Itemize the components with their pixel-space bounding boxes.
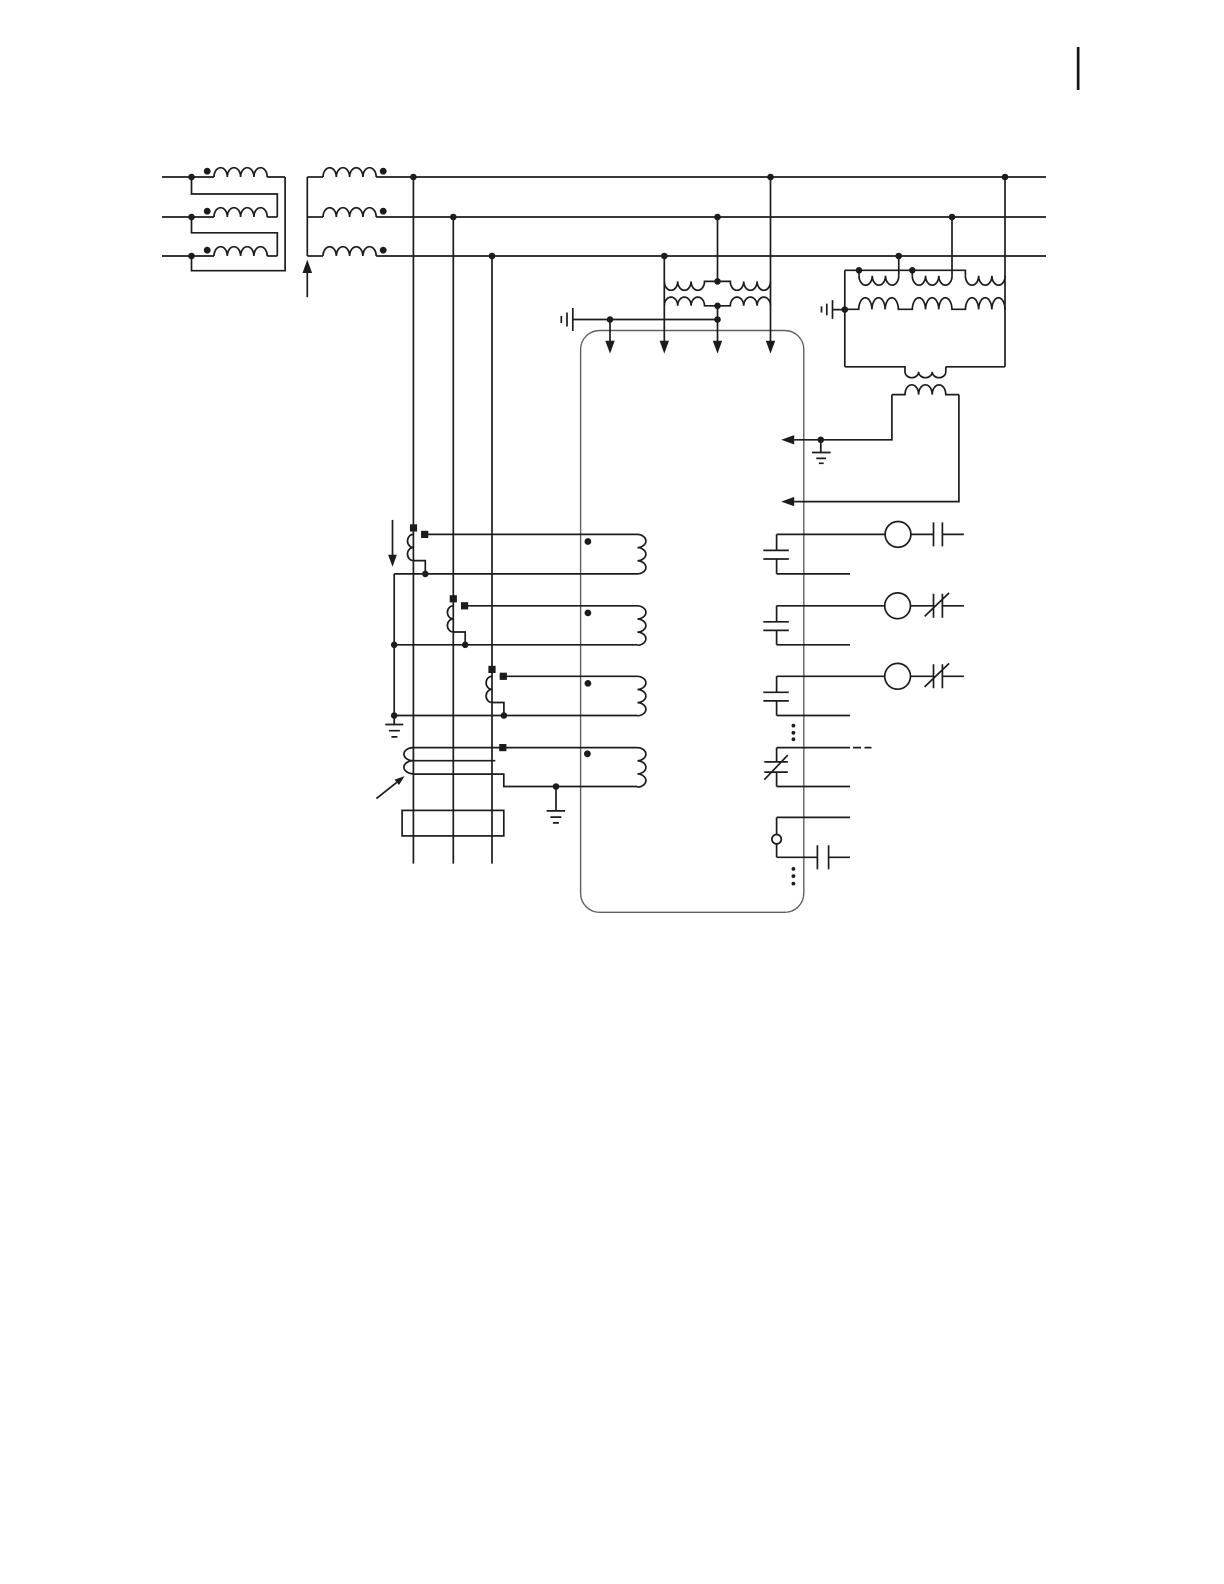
polarity dot T1 primary C (204, 247, 211, 254)
wire F2 winding b lead (911, 270, 913, 275)
contact K2 row 2 with slash (925, 593, 950, 618)
meter circle row 1 (885, 522, 911, 548)
transactor TA1 polarity square primary (410, 524, 417, 531)
transactor TA3 primary winding on phase C drop (486, 676, 504, 715)
junction dot secondary lead 1 (818, 437, 825, 444)
capacitor C1 branch row 1 (763, 534, 850, 574)
ground G2 below TA4 (547, 787, 565, 823)
transformer T1 primary winding phase A (214, 168, 267, 177)
polarity dot T1 secondary C (380, 247, 387, 254)
junction dot phase B tap 2 (714, 214, 721, 221)
wire T1-B winding tail (267, 216, 277, 218)
arrow up at secondary bus (306, 273, 308, 298)
junction dot ground bus at center drop (714, 316, 721, 323)
wire tap vertical phase C (491, 256, 493, 864)
junction dot TA4 ground tap (553, 783, 560, 790)
junction dot TA1 common (422, 571, 429, 578)
wire TA2 secondary top lead (461, 605, 638, 607)
junction dot TA2 common (462, 642, 469, 649)
wire filter F2 phase C lead (898, 256, 900, 276)
junction dot TA3 common (501, 712, 508, 719)
wire F2 bottom loop with output transformer primary (845, 367, 1005, 378)
inductor TA4 secondary inside relay (638, 748, 646, 788)
wire T1-A winding tail (267, 176, 285, 178)
wire ground bus to relay (573, 319, 718, 321)
wire filter F2 phase B lead (951, 217, 953, 276)
wire filter F2 phase A lead and loop right side (1004, 177, 1006, 367)
junction dot F2 bus a (856, 267, 863, 274)
output row 1 line (777, 533, 964, 535)
wire phase B bus (376, 216, 1046, 218)
capacitor C2 branch row 2 (763, 606, 850, 645)
junction dot phase A input (188, 174, 195, 181)
output row 3 line (777, 675, 964, 677)
junction dot phase B tap 1 (450, 214, 457, 221)
inductor TA2 secondary inside relay (638, 606, 646, 646)
inductor output transformer secondary (892, 385, 959, 395)
ellipsis dots between row 3 and row 4 (792, 724, 796, 728)
meter circle row 2 (885, 593, 911, 619)
wire filter F2 tap bus (845, 270, 966, 275)
spark gap circle row 5 (776, 817, 778, 834)
junction dot TA2 bottom at summing bus (391, 642, 398, 649)
transformer T1 primary winding phase B (214, 208, 267, 217)
output row 4 line with dashed continuation (777, 747, 872, 749)
polarity dot TA1 secondary (585, 538, 592, 545)
wire T1 secondary common bus (306, 177, 308, 256)
wire filter F1 phase A drop with entry arrow (770, 177, 772, 341)
wire delta link B to C (192, 217, 278, 256)
wire delta link A winding to C node (192, 177, 286, 271)
junction dot F2 ground node (842, 306, 849, 313)
inductor TA3 secondary inside relay (638, 676, 646, 716)
meter circle row 3 (885, 663, 911, 689)
wire F2 winding a lead (858, 270, 860, 275)
inductor F2 primary winding a (859, 276, 899, 286)
contact K3 row 3 with slash (925, 663, 950, 688)
ground G3 left of filter F1 (561, 308, 573, 331)
inductor F2 primary winding b (912, 276, 952, 286)
capacitor C3 branch row 3 (763, 676, 850, 715)
junction dot phase A tap 3 (1002, 174, 1009, 181)
transformer T1 secondary winding phase C (323, 247, 376, 256)
page margin tick (1077, 47, 1080, 90)
junction dot ground bus tap (607, 316, 614, 323)
transactor TA2 polarity square primary (450, 595, 457, 602)
polarity dot T1 secondary A (380, 168, 387, 175)
wire T1-C winding tail (267, 255, 277, 257)
transformer T1 primary winding phase C (214, 247, 267, 256)
wire delta link A to B (192, 177, 278, 217)
wire secondary lead 1 with left entry arrow (794, 395, 892, 440)
junction dot phase B input (188, 214, 195, 221)
wire F2 left frame (844, 270, 846, 367)
ground G5 on secondary lead (812, 440, 831, 464)
junction dot phase C tap 1 (489, 253, 496, 260)
ellipsis dots below row 5 (792, 867, 796, 871)
wire TA3 secondary top lead (500, 675, 638, 677)
wire phase B input (162, 216, 214, 218)
wire F1 center tap to ground bus with entry arrow (717, 306, 719, 341)
wire filter F1 phase C drop with entry arrow (663, 256, 665, 341)
transactor TA4 flat coupling coil (404, 748, 638, 787)
transactor TA1 primary winding on phase A drop (408, 534, 426, 574)
wire phase A bus (376, 176, 1046, 178)
polarity dot T1 secondary B (380, 208, 387, 215)
transformer T1 secondary winding phase B (323, 208, 376, 217)
ground G4 left of F2 (822, 300, 845, 319)
output row 2 line (777, 605, 964, 607)
polarity dot TA2 secondary (585, 610, 592, 617)
magnetic core block (402, 810, 504, 836)
wire tap vertical phase B (452, 217, 454, 864)
wire secondary C stub (307, 255, 323, 257)
junction dot phase A tap 2 (767, 174, 774, 181)
wire TA1 bottom lead (394, 573, 637, 575)
wire TA1 secondary top lead (421, 533, 638, 535)
junction dot phase C tap 3 (895, 253, 902, 260)
transactor TA3 polarity square primary (488, 666, 495, 673)
wire phase C input (162, 255, 214, 257)
transactor TA2 polarity square secondary (461, 602, 468, 609)
inductor F2 secondary winding (845, 298, 1005, 310)
capacitor C5 row 5 (777, 844, 850, 870)
output row 5 line (777, 816, 850, 818)
wire TA2 bottom lead (394, 644, 637, 646)
contact K1 row 1 (934, 522, 943, 546)
wire tap vertical phase A (412, 177, 414, 864)
transactor TA4 polarity square (499, 744, 506, 751)
junction dot TA3 bottom at summing bus (391, 712, 398, 719)
inductor filter F1 lower winding (664, 297, 770, 306)
arrow down at summing node (392, 520, 394, 555)
wire secondary A stub (307, 176, 323, 178)
transformer T1 secondary winding phase A (323, 168, 376, 177)
polarity dot TA4 secondary (584, 750, 591, 757)
inductor TA1 secondary inside relay (638, 534, 646, 574)
wire TA3 bottom lead (394, 715, 637, 717)
wire phase A input (162, 176, 214, 178)
junction dot phase B tap 3 (949, 214, 956, 221)
junction dot phase C input (188, 253, 195, 260)
wire summing bus left vertical (393, 574, 395, 716)
inductor F2 primary winding c (965, 276, 1005, 286)
junction dot F1 lower center tap (714, 303, 721, 310)
inductor filter F1 upper winding (664, 281, 770, 290)
transactor TA2 primary winding on phase B drop (447, 606, 465, 645)
polarity dot TA3 secondary (585, 680, 592, 687)
transactor TA1 polarity square secondary (421, 531, 428, 538)
junction dot F1 upper center tap (714, 278, 721, 285)
wire phase C bus (376, 255, 1046, 257)
wire TA4 secondary top lead (413, 747, 637, 749)
junction dot F2 bus b (909, 267, 916, 274)
ground G1 below summing bus (385, 716, 403, 737)
wire secondary lead 2 with left entry arrow (794, 395, 959, 502)
junction dot phase C tap 2 (661, 253, 668, 260)
transactor TA3 polarity square secondary (500, 673, 507, 680)
variable capacitor C4 branch row 4 (764, 748, 850, 787)
polarity dot T1 primary B (204, 208, 211, 215)
polarity dot T1 primary A (204, 168, 211, 175)
wire secondary B stub (307, 216, 323, 218)
wire ground bus drop with entry arrow (609, 320, 611, 342)
wire filter F1 phase B drop (717, 217, 719, 281)
relay unit case (581, 331, 804, 913)
arrow adjustment pointer at TA4 (376, 782, 396, 798)
junction dot phase A tap 1 (410, 174, 417, 181)
